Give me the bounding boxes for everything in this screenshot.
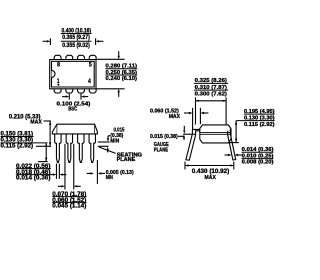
- svg-text:MAX: MAX: [205, 175, 217, 181]
- svg-text:PLANE: PLANE: [117, 157, 136, 163]
- svg-text:0.115 (2.92): 0.115 (2.92): [244, 122, 275, 128]
- svg-text:0.008 (0.20): 0.008 (0.20): [242, 160, 274, 166]
- svg-text:BSC: BSC: [68, 106, 78, 112]
- svg-text:MAX: MAX: [169, 114, 181, 120]
- svg-text:1: 1: [57, 78, 60, 85]
- svg-text:PLANE: PLANE: [154, 147, 169, 153]
- svg-text:0.115 (2.92): 0.115 (2.92): [1, 144, 34, 150]
- svg-text:4: 4: [88, 78, 91, 85]
- svg-text:0.045 (1.14): 0.045 (1.14): [52, 204, 86, 210]
- svg-text:0.365 (9.27): 0.365 (9.27): [62, 35, 90, 41]
- svg-text:MIN: MIN: [106, 175, 113, 181]
- svg-text:MIN: MIN: [110, 139, 119, 145]
- svg-text:0.014 (0.36): 0.014 (0.36): [16, 176, 51, 182]
- svg-text:8: 8: [57, 62, 60, 69]
- svg-text:0.300 (7.62): 0.300 (7.62): [195, 92, 227, 98]
- svg-text:0.240 (6.10): 0.240 (6.10): [106, 76, 138, 82]
- svg-text:0.015 (0.38): 0.015 (0.38): [150, 134, 178, 140]
- svg-text:5: 5: [89, 62, 92, 69]
- svg-text:0.355 (9.02): 0.355 (9.02): [62, 43, 90, 49]
- svg-text:MAX: MAX: [30, 120, 42, 126]
